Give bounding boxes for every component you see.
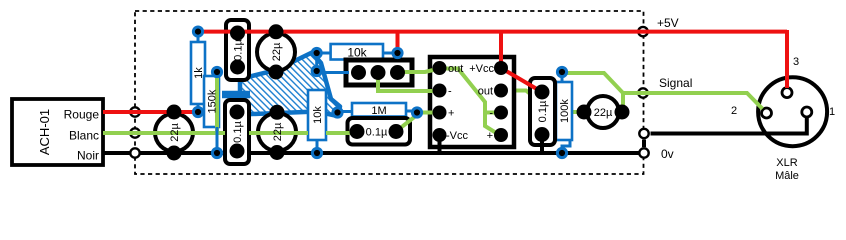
svg-text:+5V: +5V [657,16,679,30]
svg-text:+Vcc: +Vcc [469,63,494,75]
svg-text:XLR: XLR [776,157,797,169]
svg-text:Noir: Noir [77,149,99,163]
svg-text:-: - [448,86,452,98]
svg-text:1M: 1M [371,105,386,117]
svg-text:2: 2 [731,105,737,117]
svg-text:22µ: 22µ [272,122,284,141]
svg-text:0.1µ: 0.1µ [366,127,388,139]
svg-text:out: out [448,63,463,75]
svg-text:Rouge: Rouge [64,108,100,122]
svg-text:+: + [487,130,493,142]
svg-text:22µ: 22µ [169,123,181,142]
svg-text:0.1µ: 0.1µ [233,39,245,61]
svg-text:Mâle: Mâle [775,170,799,182]
svg-text:10k: 10k [312,106,324,124]
svg-text:150k: 150k [207,89,219,113]
svg-text:22µ: 22µ [594,107,613,119]
svg-text:10k: 10k [347,46,367,60]
svg-text:out: out [478,86,493,98]
svg-text:ACH-01: ACH-01 [37,109,52,155]
svg-text:Blanc: Blanc [69,129,99,143]
svg-text:0v: 0v [661,147,674,161]
svg-text:0.1µ: 0.1µ [537,100,549,122]
svg-text:-: - [489,108,493,120]
svg-text:+: + [448,108,454,120]
svg-text:1: 1 [829,106,835,118]
svg-text:Signal: Signal [659,76,692,90]
svg-text:22µ: 22µ [271,42,283,61]
svg-text:100k: 100k [559,99,571,123]
svg-text:-Vcc: -Vcc [446,130,469,142]
svg-text:1k: 1k [193,67,205,79]
svg-text:0.1µ: 0.1µ [232,121,244,143]
svg-text:3: 3 [793,56,799,68]
